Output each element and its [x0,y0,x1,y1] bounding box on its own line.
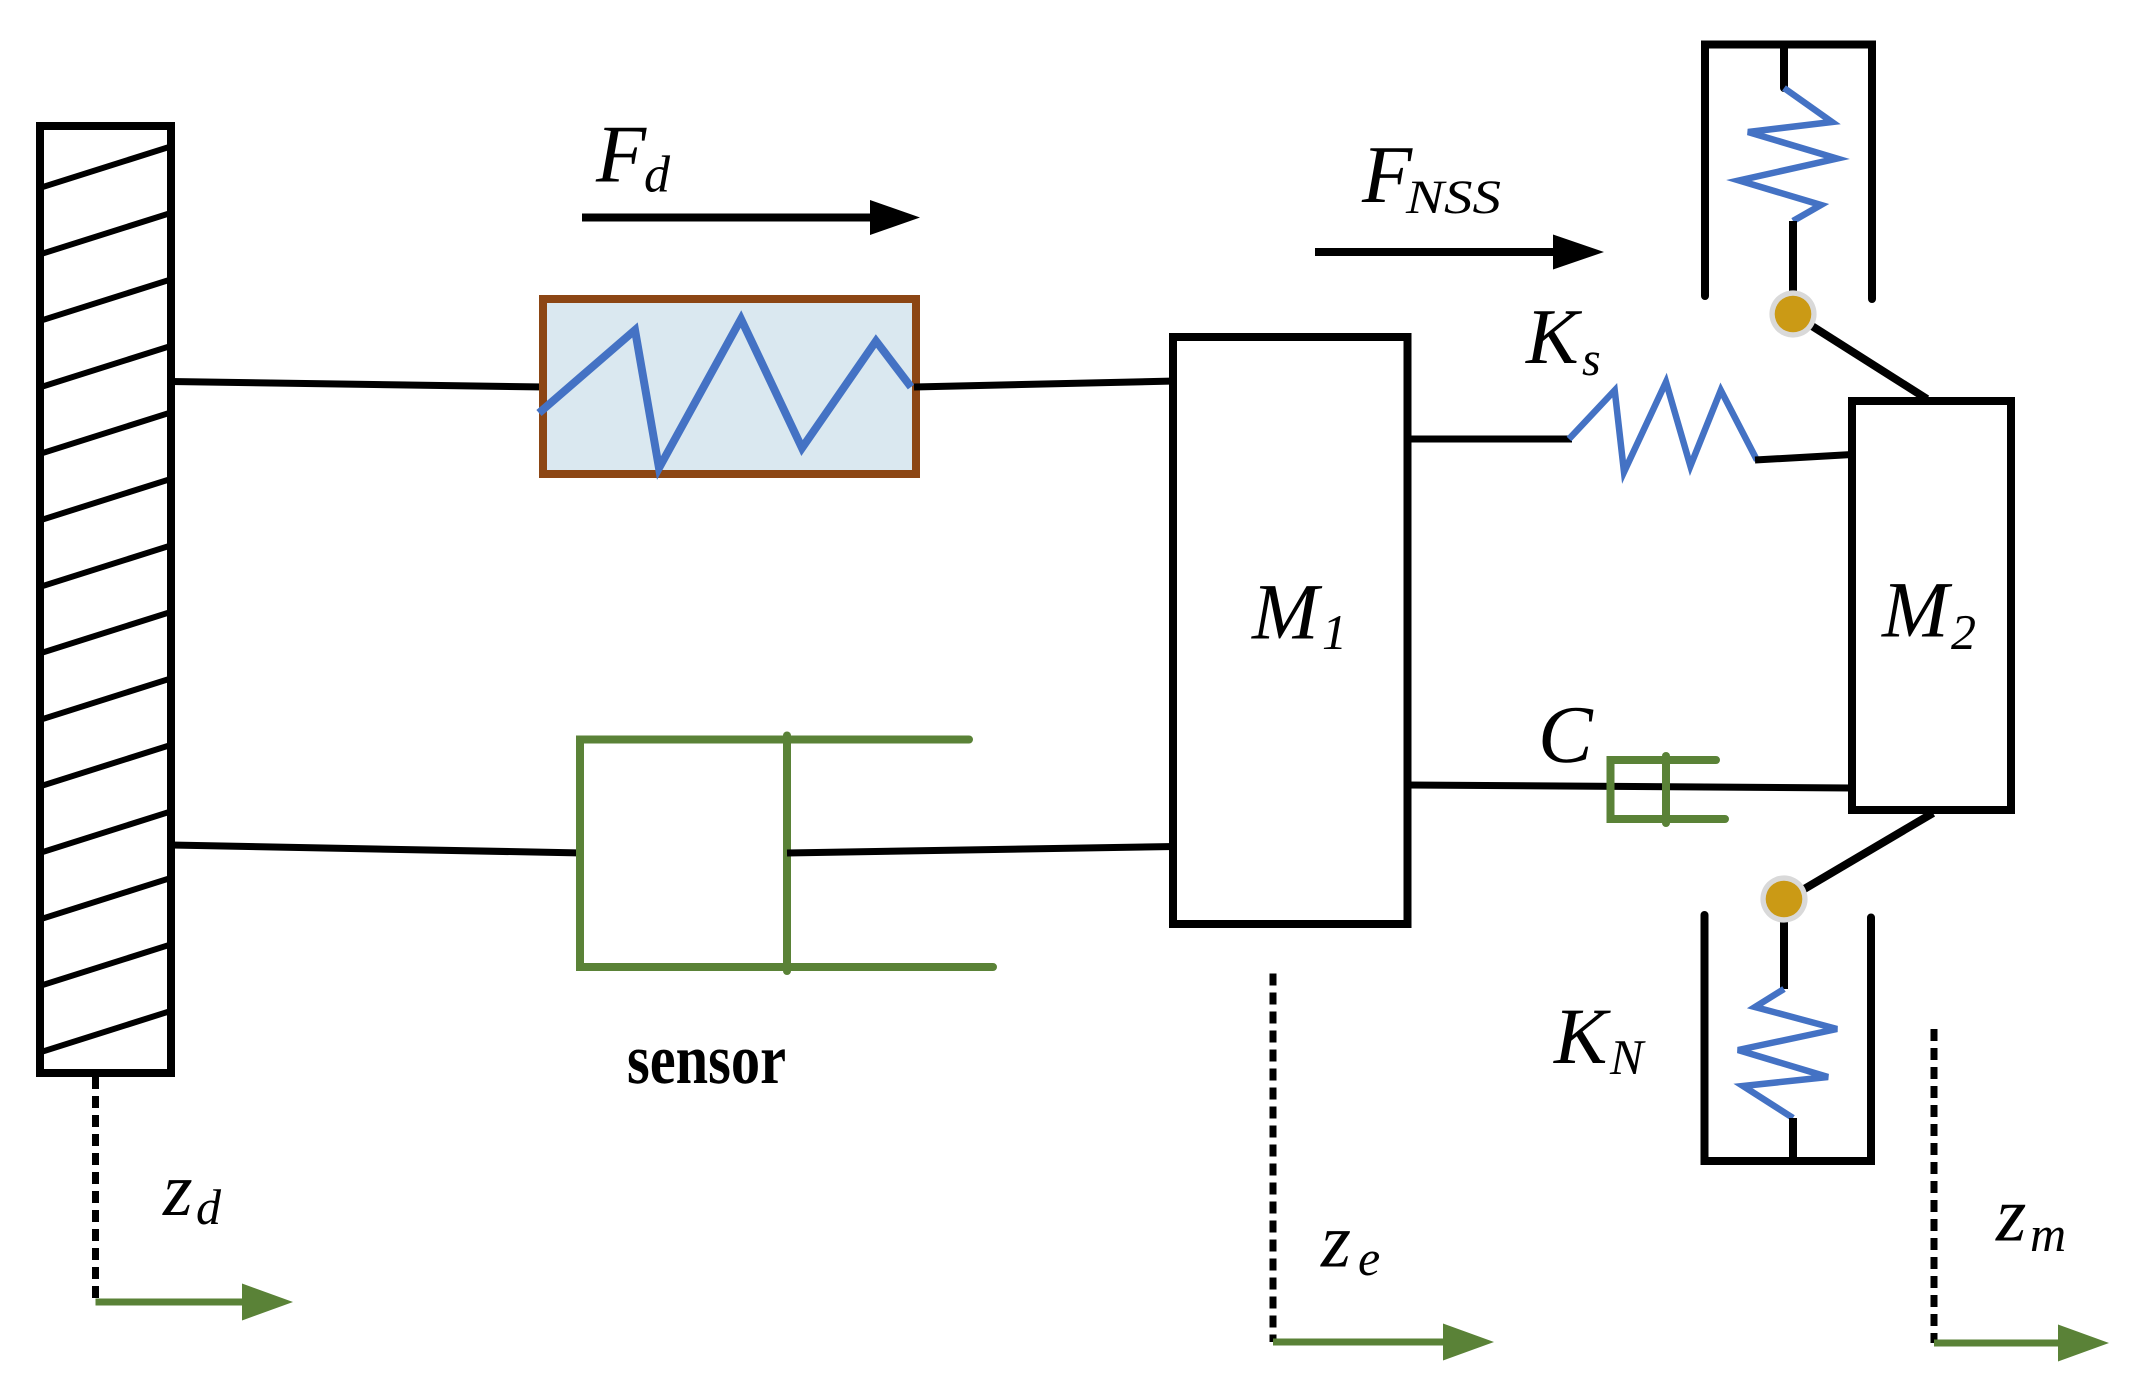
datum arrow zm (green) [1934,1340,2061,1347]
KN spring stub to bracket [1789,1118,1797,1161]
Fd actuator box (light blue, brown border) [543,299,916,474]
bottom pin joint (gold) [1760,875,1807,922]
svg-text:F: F [595,109,647,200]
datum arrow zd (green) [96,1299,246,1306]
sensor piston rod to M1 [787,847,1175,854]
link top pin to M2 [1793,314,1927,399]
svg-text:d: d [196,1179,222,1235]
wire wall to Fd spring box (top) [171,382,545,388]
wire NSS spring to top pin [1789,221,1797,310]
spring Ks (blue zigzag) [1569,382,1757,472]
svg-text:sensor: sensor [627,1021,786,1099]
svg-text:z: z [1320,1198,1351,1284]
wire M1 to Ks spring [1407,436,1572,443]
datum dashed line ze [1270,974,1277,1343]
svg-text:s: s [1582,333,1601,386]
wire wall to sensor damper (bottom) [171,845,583,853]
Fd spring (blue zigzag inside box) [539,319,911,468]
NSS top spring (blue vertical zigzag) [1739,88,1837,221]
svg-text:1: 1 [1322,604,1347,660]
svg-text:M: M [1881,567,1953,655]
mass M1 [1173,337,1408,924]
svg-text:M: M [1251,569,1323,657]
link bottom pin to M2 [1789,813,1933,898]
svg-text:z: z [162,1148,193,1232]
damper C (green) [1611,756,1726,823]
svg-text:2: 2 [1951,604,1976,660]
wire M1 to M2 through damper C [1407,785,1852,788]
datum dashed line zd [92,1077,99,1302]
top pin joint (gold) [1769,290,1816,337]
datum arrow ze (green) [1273,1339,1446,1346]
mass M2 [1852,401,2011,810]
NSS top bracket [1705,45,1872,300]
force arrow Fd [582,214,873,222]
datum dashed line zm [1931,1029,1938,1343]
svg-text:N: N [1609,1029,1646,1085]
svg-text:m: m [2030,1206,2066,1262]
wire Ks spring to M2 [1755,455,1852,461]
spring KN (blue vertical zigzag) [1738,989,1837,1118]
force arrow FNSS [1315,248,1556,256]
svg-text:C: C [1538,689,1594,780]
ground wall (hatched) [30,77,181,1073]
svg-text:NSS: NSS [1405,171,1501,224]
svg-text:K: K [1525,294,1583,381]
wire Fd box to M1 [914,381,1175,387]
svg-text:d: d [644,147,671,204]
KN bottom bracket [1705,915,1872,1161]
svg-text:z: z [1995,1171,2026,1258]
svg-text:e: e [1358,1230,1380,1286]
wire bottom pin to KN spring [1780,899,1788,989]
sensor damper (green cylinder + piston) [580,736,993,972]
svg-text:K: K [1553,993,1611,1081]
